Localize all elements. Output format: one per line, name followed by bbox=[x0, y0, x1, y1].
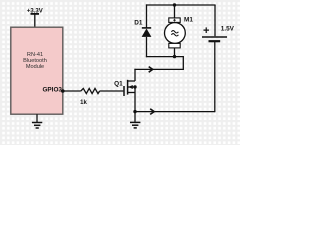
svg-text:1.5V: 1.5V bbox=[221, 25, 235, 32]
svg-text:Module: Module bbox=[26, 64, 44, 70]
svg-text:GPIO3: GPIO3 bbox=[42, 87, 62, 94]
svg-text:+: + bbox=[203, 25, 209, 37]
svg-text:1k: 1k bbox=[80, 100, 87, 106]
svg-text:D1: D1 bbox=[134, 19, 143, 26]
svg-text:Q1: Q1 bbox=[114, 80, 123, 87]
svg-text:M1: M1 bbox=[184, 17, 193, 24]
